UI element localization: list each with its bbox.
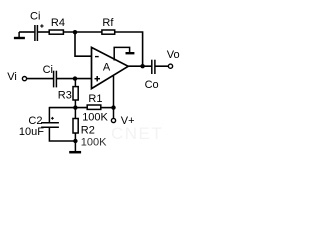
svg-text:100K: 100K [81, 137, 107, 149]
polarity + (top Ci) [40, 24, 43, 27]
ground (top-left) [14, 32, 25, 38]
svg-text:V+: V+ [121, 115, 135, 127]
wire (Ci to R4) [38, 31, 49, 33]
plus sign (non-inverting input) [95, 76, 101, 81]
node junction R4/Rf/inverting [73, 30, 77, 34]
wire (R1 to V+ node) [101, 107, 114, 109]
svg-text:CNET: CNET [111, 124, 163, 143]
svg-text:A: A [103, 62, 111, 74]
svg-text:Co: Co [145, 79, 159, 91]
svg-text:Ci: Ci [30, 10, 40, 22]
svg-text:Vi: Vi [7, 71, 17, 83]
svg-text:100K: 100K [82, 111, 108, 123]
wire (R4 to junction to Rf) [63, 31, 102, 33]
wire (Rf right, corner down to output node) [115, 32, 143, 66]
wire (junction to V+ terminal) [113, 108, 115, 119]
wire (bias row: C2 corner to R1) [49, 107, 87, 109]
capacitor Co [152, 60, 155, 74]
resistor R4 [49, 30, 63, 34]
svg-text:Rf: Rf [102, 17, 114, 29]
node bias junction [73, 105, 77, 109]
capacitor C2 [41, 123, 59, 128]
resistor R1 [87, 105, 101, 109]
op-amp U1 triangle [92, 47, 129, 88]
wire (C2 bottom to ground row) [49, 128, 75, 141]
capacitor Ci (input) [54, 71, 57, 88]
wire (R3 to bias junction) [74, 100, 76, 108]
svg-text:R4: R4 [51, 17, 65, 29]
node output junction [140, 64, 144, 68]
wire (Co to Vo terminal) [155, 65, 168, 67]
wire (C2 top stub from bias row) [48, 107, 50, 122]
ground (bottom) [69, 141, 81, 152]
terminal Vi [22, 77, 26, 81]
svg-text:R3: R3 [58, 90, 72, 102]
resistor R3 [73, 87, 78, 100]
node ground junction [73, 139, 77, 143]
wire (op-amp V+ pin down to junction) [113, 76, 115, 108]
resistor R2 [73, 119, 78, 134]
wire (gnd to Ci) [19, 31, 34, 33]
capacitor Ci (top, polarized) [35, 25, 38, 41]
polarity + (C2) [51, 117, 54, 120]
wire (R2 bottom to ground junction) [74, 133, 76, 141]
wire (junction down and right to inverting input) [75, 32, 92, 56]
svg-text:Ci: Ci [43, 64, 53, 76]
svg-text:Vo: Vo [167, 49, 180, 61]
resistor Rf [102, 30, 115, 34]
svg-text:R2: R2 [81, 124, 95, 136]
terminal V+ [111, 118, 115, 122]
svg-text:R1: R1 [88, 93, 102, 105]
wire (R2 top stub) [74, 108, 76, 119]
node junction Vi/R3 [73, 76, 77, 80]
wire (op-amp output to Co) [128, 65, 151, 67]
wire (Vi to Ci input cap) [27, 78, 53, 80]
svg-text:10uF: 10uF [19, 126, 44, 138]
minus sign (inverting input) [95, 56, 99, 58]
wire (junction down to R3) [74, 79, 76, 87]
ground (op-amp negative supply) [114, 47, 134, 60]
node V+ junction [111, 105, 115, 109]
terminal Vo [168, 64, 172, 68]
wire (Ci to non-inverting input) [57, 78, 92, 80]
